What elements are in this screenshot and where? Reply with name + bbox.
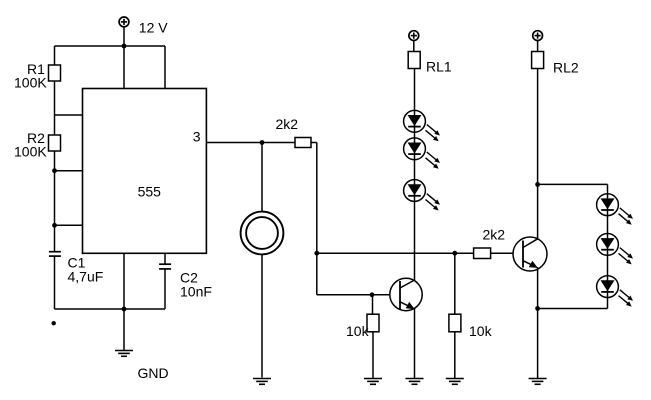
ground (speaker): [253, 379, 271, 385]
capacitor C1: [49, 252, 61, 256]
resistor 10k (Q2 base): [449, 314, 461, 332]
wire Q1 collector / LED chain: [414, 69, 416, 281]
LED D5: [597, 234, 633, 265]
speaker LS1: [241, 212, 284, 255]
junction dot bottom rail gnd: [122, 307, 127, 312]
svg-text:100K: 100K: [14, 75, 47, 91]
wire rail to R1: [54, 46, 56, 65]
wire 10k to ground: [372, 332, 374, 379]
LED D2: [404, 138, 440, 169]
junction dot node C: [452, 251, 457, 256]
junction dot node D: [535, 182, 540, 187]
wire down to 10k: [372, 295, 374, 314]
wire node to IC pin 2: [55, 224, 83, 226]
wire top rail right drop to IC: [164, 46, 166, 89]
junction dot pin3-speaker: [260, 140, 265, 145]
wire speaker to ground: [261, 254, 263, 377]
wire Q1 emitter to ground: [414, 308, 416, 379]
svg-text:100K: 100K: [14, 144, 47, 160]
resistor R4 2k2: [474, 248, 491, 259]
transistor Q1: [390, 278, 422, 310]
wire node C down to 10k: [454, 253, 456, 314]
svg-text:12 V: 12 V: [139, 20, 168, 36]
resistor R3 2k2: [295, 138, 311, 148]
wire top rail: [55, 45, 166, 47]
wire pin 3 out: [206, 142, 295, 144]
LED D3: [404, 180, 440, 211]
LED D4: [597, 194, 633, 225]
power symbol (RL2): [533, 31, 543, 41]
svg-text:4,7uF: 4,7uF: [68, 269, 104, 285]
transistor Q2: [513, 237, 547, 271]
junction dot node B: [314, 251, 319, 256]
wire R2 to C1: [54, 151, 56, 251]
wire to Q1 base: [317, 294, 390, 296]
wire R1/R2 node to IC pin 7: [55, 114, 83, 116]
wire node D to LED chain 2: [538, 183, 608, 185]
power symbol (RL1): [409, 31, 419, 41]
ground (10k right): [446, 379, 464, 385]
ground (main): [115, 351, 133, 357]
wire IC pin 5 to C2: [164, 253, 166, 264]
svg-text:RL2: RL2: [553, 60, 579, 76]
wire Q2 emitter to node E: [537, 267, 539, 309]
junction dot node E: [535, 306, 540, 311]
wire 2k2 to corner: [311, 142, 317, 144]
junction dot base-10k: [370, 292, 375, 297]
wire speaker feed: [261, 143, 263, 212]
wire node B down: [316, 253, 318, 295]
svg-text:555: 555: [138, 184, 162, 200]
junction dot node C1-IC: [52, 223, 57, 228]
ground (Q2): [529, 379, 547, 385]
wire power to RL1: [413, 40, 415, 51]
wire bottom rail: [55, 308, 166, 310]
svg-text:10k: 10k: [346, 323, 370, 339]
wire 2k2 to Q2 base: [491, 252, 513, 254]
wire IC gnd pin to bottom rail: [123, 253, 125, 309]
stray dot: [52, 321, 56, 325]
wire power stem to IC top pin: [123, 27, 125, 89]
wire power to RL2: [537, 40, 539, 51]
wire 10k to ground: [454, 332, 456, 379]
LED D6: [597, 276, 633, 307]
resistor 10k (Q1 base): [367, 314, 379, 332]
wire LED chain 2 bottom: [538, 308, 608, 310]
resistor RL2: [532, 52, 544, 69]
resistor R2: [49, 135, 61, 151]
svg-text:10k: 10k: [469, 323, 493, 339]
ground (Q1): [406, 379, 424, 385]
IC U1 555 timer: [83, 89, 207, 254]
wire node E to ground: [537, 309, 539, 379]
wire LED chain 2 vertical: [607, 184, 609, 308]
svg-text:2k2: 2k2: [276, 116, 299, 132]
svg-text:GND: GND: [138, 365, 169, 381]
svg-text:10nF: 10nF: [180, 284, 212, 300]
wire node to IC pin 6: [55, 170, 83, 172]
wire gnd stem: [123, 309, 125, 351]
ground (10k left): [364, 379, 382, 385]
junction dot node R2-IC: [52, 168, 57, 173]
svg-text:3: 3: [193, 129, 201, 145]
wire R1 to R2: [54, 81, 56, 135]
wire node B to right: [317, 252, 455, 254]
LED D1: [404, 110, 440, 141]
wire C1 to bottom rail: [54, 256, 56, 309]
power symbol +12V: [119, 17, 129, 27]
svg-text:2k2: 2k2: [483, 227, 506, 243]
svg-text:RL1: RL1: [426, 59, 452, 75]
resistor RL1: [408, 52, 420, 69]
capacitor C2: [159, 264, 171, 269]
wire C2 to bottom rail: [164, 269, 166, 309]
wire RL2 to Q2 collector: [537, 69, 539, 239]
junction dot at 12V rail: [122, 44, 127, 49]
wire down to node: [316, 143, 318, 254]
wire node C to 2k2: [455, 252, 474, 254]
resistor R1: [49, 65, 61, 81]
